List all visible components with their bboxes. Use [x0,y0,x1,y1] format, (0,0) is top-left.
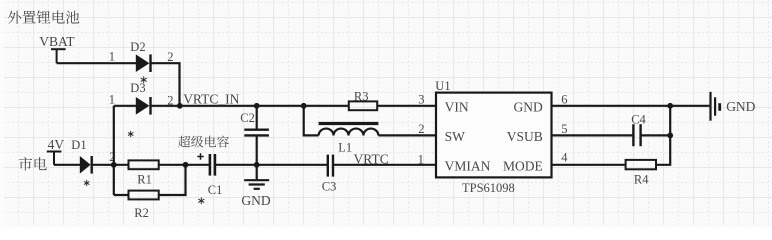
wire: VBAT to D2 anode [57,62,137,64]
svg-text:2: 2 [418,122,424,136]
plus sign of C1 [197,153,203,159]
svg-text:1: 1 [109,50,115,64]
svg-text:L1: L1 [338,141,352,155]
svg-text:U1: U1 [435,79,450,93]
svg-text:VRTC: VRTC [354,151,389,166]
wire: R4 to riser, up to pin 6 [656,106,670,165]
resistor R4 [626,160,656,187]
label 超级电容 (super capacitor) [178,136,229,148]
capacitor C4 [631,113,646,147]
svg-text:R2: R2 [134,206,149,220]
op IC U1 TPS61098 [435,79,551,195]
svg-text:R3: R3 [354,90,369,104]
svg-text:6: 6 [561,92,567,106]
svg-text:1: 1 [418,152,424,166]
svg-text:3: 3 [418,92,424,106]
svg-text:1: 1 [109,92,115,106]
ground symbol right (sideways) [711,92,720,121]
svg-text:R4: R4 [634,172,649,186]
wire: C1 to C2/GND junction [215,164,328,166]
label 外置锂电池 (external lithium battery) [8,10,79,23]
junction L1 branch on VRTC_IN rail [301,103,307,109]
junction below C2 [254,162,260,168]
junction pin6/riser [667,103,673,109]
diode D1 [71,138,91,173]
svg-text:VBAT: VBAT [39,34,75,49]
svg-text:D1: D1 [71,138,86,152]
inductor L1 [304,106,437,136]
resistor R3 [349,90,377,111]
wire: D1 cathode to node 2 [92,164,129,166]
svg-text:5: 5 [561,122,567,136]
junction right of R1 [183,162,189,168]
label 市电 (mains power) [19,157,47,170]
svg-text:VIN: VIN [445,99,469,114]
capacitor C3 [322,155,337,194]
power port 4V [47,152,62,165]
resistor R1 [129,160,159,186]
power port VBAT [51,49,66,63]
wire: riser from VRTC_IN row through node 2 down to R2 branch [113,106,115,195]
wire: pin 4 to R4 [552,164,626,166]
svg-text:GND: GND [241,193,270,208]
wire: C3 to pin 1 [333,164,437,166]
svg-text:4: 4 [561,150,568,164]
asterisk above R1 [128,131,133,136]
svg-text:GND: GND [514,99,543,114]
svg-text:MODE: MODE [503,158,543,173]
wire: pin 5 to C4 [552,134,633,136]
asterisk below D1 [84,180,89,185]
svg-text:D2: D2 [130,40,145,54]
svg-text:C3: C3 [322,179,337,193]
wire: 4V to D1 anode [54,164,81,166]
svg-text:SW: SW [445,129,466,144]
resistor R2 [114,165,186,220]
wire: VRTC_IN rail [151,105,350,107]
svg-text:VSUB: VSUB [507,129,543,144]
svg-text:4V: 4V [48,137,65,152]
ground symbol below C2 [244,165,269,189]
junction at D2/D3 cathodes [177,103,183,109]
wire: R3 to pin 3 [377,105,437,107]
junction at node 2 [111,162,117,168]
svg-text:VRTC_IN: VRTC_IN [183,91,239,106]
svg-text:2: 2 [167,50,173,64]
diode D2 [130,40,150,72]
diode D3 [130,81,150,115]
svg-text:R1: R1 [137,172,152,186]
svg-text:C2: C2 [240,111,255,125]
wire: pin 6 to right GND [552,105,710,107]
asterisk above D3 [141,77,146,83]
wire: D2 cathode to corner, down to VRTC_IN rail [151,63,180,106]
svg-text:VMIAN: VMIAN [445,158,491,173]
svg-text:C4: C4 [631,113,646,127]
capacitor C1 (polarized) [208,154,223,197]
wire: R1 to C1 junction [159,164,210,166]
svg-text:TPS61098: TPS61098 [462,181,515,195]
svg-text:C1: C1 [208,183,223,197]
wire: C4 to riser [641,134,671,136]
capacitor C2 [240,106,269,165]
svg-text:GND: GND [726,99,755,114]
junction C4/riser [667,133,673,139]
junction C2 top on VRTC_IN rail [254,103,260,109]
asterisk below-left of C1 [199,198,204,204]
wire: node2 riser to D3 anode [114,105,137,107]
